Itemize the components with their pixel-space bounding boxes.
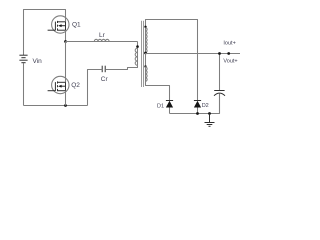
- node center tap dot: [144, 52, 147, 55]
- diode D2: [194, 101, 201, 114]
- transformer primary winding: [135, 48, 137, 65]
- inductor Lr: [94, 39, 109, 41]
- wire Q1 source to midpoint node: [65, 30, 67, 41]
- transformer core: [142, 21, 144, 87]
- transistor Q2: [48, 76, 69, 93]
- wire Cr to bottom rail: [88, 70, 107, 106]
- svg-text:Vout+: Vout+: [223, 59, 237, 65]
- transistor Q1: [48, 16, 69, 33]
- transformer secondary bottom winding: [146, 67, 148, 81]
- wire midpoint to Q2 drain: [65, 42, 67, 83]
- node output terminal dot: [227, 52, 230, 55]
- primary phasing dot: [136, 45, 139, 48]
- svg-text:D2: D2: [202, 103, 209, 109]
- svg-text:Vin: Vin: [33, 58, 43, 65]
- secondary phasing dot top: [144, 26, 146, 28]
- battery Vin: [19, 55, 27, 63]
- capacitor Cr plates: [102, 66, 105, 73]
- svg-text:Q2: Q2: [71, 82, 80, 89]
- node Q2 source junction dot: [64, 104, 67, 107]
- wire bottom right rail: [170, 94, 220, 114]
- node ground junction dot: [208, 112, 211, 115]
- wire top rail from Vin+ to Q1 drain: [24, 10, 66, 56]
- diode D1: [166, 101, 173, 114]
- capacitor C0: [214, 54, 225, 114]
- svg-text:Iout+: Iout+: [223, 40, 235, 46]
- svg-text:D1: D1: [157, 103, 164, 109]
- wire center tap to output Vout+: [146, 53, 241, 55]
- wire primary bottom to Cr: [105, 65, 137, 69]
- wire Q2 source to bottom rail: [65, 91, 67, 106]
- node D2 rail junction dot: [196, 112, 199, 115]
- wire Lr to transformer primary: [137, 42, 139, 66]
- wire battery negative to bottom rail: [23, 63, 25, 106]
- wire link to bottom winding: [145, 53, 147, 65]
- svg-text:Lr: Lr: [99, 32, 106, 39]
- svg-text:Q1: Q1: [72, 21, 81, 28]
- ground: [205, 114, 215, 127]
- node midpoint junction dot: [64, 40, 67, 43]
- wire bottom rail: [24, 105, 88, 107]
- secondary phasing dot bottom: [144, 65, 146, 67]
- transformer secondary top winding: [146, 28, 148, 53]
- wire midpoint to Lr: [66, 41, 138, 43]
- svg-text:Cr: Cr: [101, 76, 109, 83]
- wire secondary bottom lead to D1: [146, 67, 170, 101]
- node C0 top junction dot: [218, 52, 221, 55]
- wire secondary top lead to D2: [146, 20, 198, 101]
